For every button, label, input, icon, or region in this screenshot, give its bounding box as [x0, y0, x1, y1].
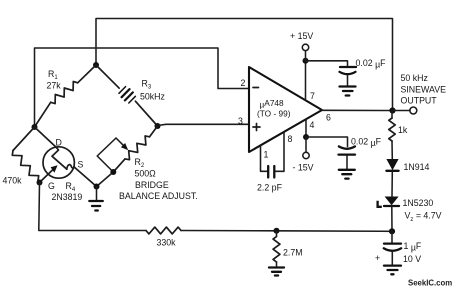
diode D1 1N914: [386, 159, 398, 171]
svg-text:2.7M: 2.7M: [283, 248, 303, 258]
svg-text:Vz = 4.7V: Vz = 4.7V: [405, 211, 442, 224]
terminal -15V: [305, 137, 307, 152]
svg-text:G: G: [48, 181, 55, 191]
resistor 2.7M: [276, 231, 278, 237]
svg-text:2N3819: 2N3819: [52, 192, 83, 202]
crystal R3 50kHz (top-right bridge arm): [96, 65, 158, 126]
wire: -15V node to bypass cap: [306, 137, 348, 147]
svg-text:R3: R3: [142, 79, 152, 91]
wire: pin 1 lead: [261, 145, 268, 171]
ground (top bypass cap): [340, 87, 356, 96]
wire: pin 8 lead: [275, 132, 284, 171]
wire: left node up and over to pin 2: [35, 48, 250, 127]
node: gate: [37, 180, 43, 186]
resistor 470k (left node to gate): [13, 127, 35, 151]
svg-text:S: S: [78, 160, 84, 170]
ground (bottom bypass cap): [339, 170, 355, 179]
wire: diode to zener: [391, 172, 393, 197]
capacitor 1uF 10V electrolytic: [384, 231, 402, 265]
resistor R1 27k (top-left bridge arm): [78, 65, 96, 83]
svg-text:470k: 470k: [3, 176, 23, 186]
svg-text:8: 8: [288, 134, 293, 144]
svg-text:4: 4: [310, 120, 315, 130]
node: R2 junction: [110, 169, 116, 175]
ground (bridge bottom): [89, 187, 103, 211]
svg-text:R2: R2: [135, 157, 145, 169]
svg-text:D: D: [56, 138, 62, 148]
svg-text:1N5230: 1N5230: [403, 198, 434, 208]
svg-text:+: +: [375, 253, 380, 263]
svg-text:BALANCE ADJUST.: BALANCE ADJUST.: [119, 191, 198, 201]
wire: pin 4 down to -15V node: [305, 119, 307, 137]
svg-text:27k: 27k: [47, 81, 62, 91]
terminal +15V: [305, 51, 307, 61]
node: bridge bottom: [94, 184, 100, 190]
svg-text:50 kHz: 50 kHz: [401, 73, 428, 83]
svg-text:(TO - 99): (TO - 99): [257, 109, 291, 119]
wire: R2 bottom to bridge bottom node: [97, 172, 114, 187]
svg-text:0.02 µF: 0.02 µF: [351, 137, 382, 149]
svg-text:50kHz: 50kHz: [140, 92, 165, 102]
resistor 330k: [146, 227, 181, 234]
svg-text:500Ω: 500Ω: [135, 169, 157, 179]
node: output: [389, 107, 395, 113]
transistor R4 2N3819 JFET: [35, 127, 97, 187]
svg-text:2: 2: [241, 78, 246, 88]
svg-text:1 µF: 1 µF: [404, 241, 422, 253]
svg-text:3: 3: [238, 116, 243, 126]
wire: +15V node to bypass cap: [306, 61, 348, 67]
op-amp U1 uA748 triangle: [249, 67, 322, 152]
svg-text:0.02 µF: 0.02 µF: [356, 58, 387, 70]
node: +15V rail: [303, 58, 309, 64]
wire: output pin 6 to output node: [322, 109, 393, 111]
wire: right node to pin 3: [158, 124, 250, 125]
node: bridge left: [32, 124, 38, 130]
svg-text:OUTPUT: OUTPUT: [401, 96, 438, 106]
capacitor 0.02uF (top bypass): [340, 67, 357, 86]
wire: bottom AGC rail: [39, 183, 146, 231]
potentiometer R2 500 ohm (bottom-right bridge arm): [97, 126, 157, 172]
node: zener/cap junction: [389, 228, 395, 234]
svg-text:10 V: 10 V: [403, 254, 421, 264]
wire: zener to bottom node: [391, 206, 393, 231]
wire: rail continues: [181, 230, 392, 233]
svg-text:2.2 pF: 2.2 pF: [257, 183, 283, 193]
terminal output: [393, 110, 411, 112]
svg-text:BRIDGE: BRIDGE: [135, 180, 169, 190]
svg-text:1k: 1k: [398, 125, 408, 135]
node: bridge top: [93, 62, 99, 68]
node: -15V rail: [303, 134, 309, 140]
node: 2.7M junction: [274, 228, 280, 234]
wire: pin 7 to +15V node: [305, 61, 307, 101]
capacitor 2.2pF compensation: [268, 166, 274, 178]
resistor 1k: [391, 111, 393, 119]
svg-text:7: 7: [310, 91, 315, 101]
wire: feedback top rail from bridge top to output node: [96, 19, 393, 111]
ground (2.7M): [269, 268, 284, 276]
label minus input: [253, 87, 259, 89]
node: bridge right: [155, 123, 161, 129]
svg-text:1N914: 1N914: [404, 162, 430, 172]
svg-text:SINEWAVE: SINEWAVE: [401, 85, 447, 95]
svg-text:+ 15V: + 15V: [290, 31, 313, 41]
svg-text:1: 1: [264, 150, 269, 160]
zener D2 1N5230: [378, 197, 399, 207]
svg-text:6: 6: [326, 113, 331, 123]
svg-text:330k: 330k: [157, 238, 177, 248]
svg-text:SeekIC.com: SeekIC.com: [408, 279, 452, 288]
svg-text:- 15V: - 15V: [293, 163, 314, 173]
svg-text:R1: R1: [48, 69, 58, 81]
label plus input: [253, 124, 260, 131]
capacitor 0.02uF (bottom bypass): [339, 146, 356, 169]
ground (1uF cap): [384, 266, 401, 275]
